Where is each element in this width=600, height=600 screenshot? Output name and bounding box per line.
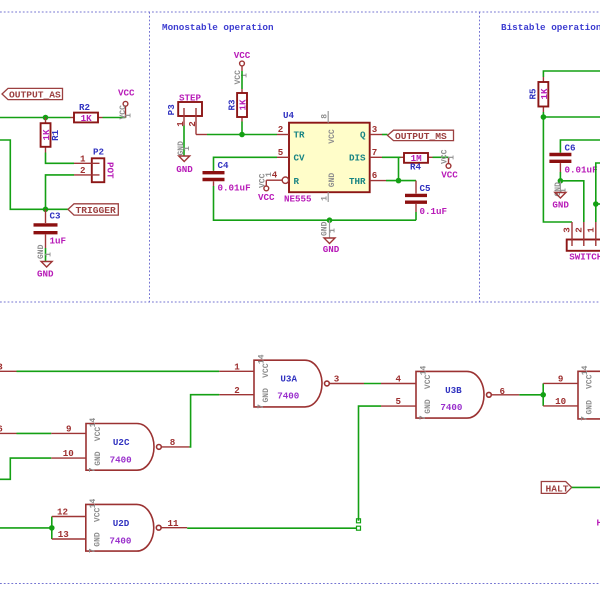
svg-text:10: 10: [555, 396, 566, 407]
svg-text:TRIGGER: TRIGGER: [76, 205, 117, 216]
wire R3 to TR net: [241, 122, 243, 135]
svg-text:C5: C5: [420, 183, 432, 194]
svg-text:7400: 7400: [277, 391, 299, 402]
svg-text:3: 3: [372, 124, 378, 135]
junction THR node: [396, 178, 402, 184]
svg-text:1K: 1K: [81, 113, 93, 124]
svg-text:SWITCH: SWITCH: [569, 252, 600, 263]
svg-text:Bistable operation: Bistable operation: [501, 22, 600, 33]
svg-text:U4: U4: [283, 110, 295, 121]
wire THR to C5: [386, 180, 416, 182]
svg-text:DIS: DIS: [349, 153, 366, 164]
wire HALT to right: [572, 486, 600, 488]
svg-text:2: 2: [573, 227, 584, 233]
svg-text:NE555: NE555: [284, 193, 312, 204]
svg-text:1: 1: [45, 252, 54, 257]
svg-text:14: 14: [257, 354, 266, 364]
svg-text:3: 3: [562, 227, 573, 233]
wire from left to U2C pin10: [0, 458, 51, 479]
resistor R5: [528, 77, 550, 112]
svg-text:GND: GND: [176, 164, 193, 175]
wire R1 to P2 pin1: [46, 153, 75, 164]
svg-text:R4: R4: [410, 162, 422, 173]
svg-text:GND: GND: [37, 269, 54, 280]
svg-text:7400: 7400: [110, 455, 132, 466]
svg-text:7: 7: [580, 416, 589, 421]
power VCC (reset pin): [258, 172, 275, 203]
wire from left (cut gate output) to U3A pin1: [0, 361, 219, 372]
U3B pin 4: [381, 374, 416, 385]
wire U3A out to U3B pin4: [364, 383, 381, 385]
wire C3 to GND: [45, 248, 47, 262]
svg-text:7: 7: [257, 404, 266, 409]
wire C6 top: [560, 140, 600, 153]
power VCC (mono top): [234, 50, 251, 85]
svg-text:U3B: U3B: [445, 385, 462, 396]
svg-text:P2: P2: [93, 147, 104, 158]
svg-text:13: 13: [58, 529, 70, 540]
svg-text:1: 1: [183, 146, 192, 151]
border bottom section: [0, 583, 600, 585]
svg-text:1: 1: [234, 361, 240, 372]
wire DIS to R4: [382, 156, 401, 158]
wire R5 bottom node: [542, 112, 544, 117]
svg-text:1: 1: [80, 153, 86, 164]
wire P2 pin2 down to trigger node: [46, 175, 75, 209]
wire DIS branch down: [398, 157, 400, 180]
resistor R3: [227, 89, 249, 122]
gate U3B 7400: [416, 366, 491, 421]
svg-text:3: 3: [0, 361, 3, 372]
svg-text:8: 8: [170, 437, 176, 448]
wire gnd node to switch pin2: [560, 181, 583, 222]
svg-text:U2C: U2C: [113, 437, 130, 448]
svg-text:2: 2: [278, 124, 284, 135]
U1B pin 10: [543, 396, 578, 407]
svg-text:0.01uF: 0.01uF: [565, 165, 598, 176]
svg-text:GND: GND: [94, 451, 103, 466]
border divider left/mono: [149, 12, 151, 302]
svg-text:VCC: VCC: [94, 508, 103, 523]
wire C4 to gnd rail: [214, 186, 417, 220]
svg-text:Q: Q: [360, 129, 366, 140]
junction gnd rail: [327, 217, 333, 223]
svg-text:OUTPUT_AS: OUTPUT_AS: [9, 90, 61, 101]
junction U1B input node: [540, 392, 546, 398]
power GND (astable): [37, 244, 54, 279]
svg-text:14: 14: [89, 418, 98, 428]
svg-text:1: 1: [328, 228, 337, 233]
U1B pin 9: [543, 374, 578, 385]
svg-text:14: 14: [89, 499, 98, 509]
svg-text:U2D: U2D: [113, 518, 130, 529]
wire from left to U2C pin9: [0, 423, 51, 434]
resistor R2: [71, 102, 103, 124]
U2D pin 13: [52, 529, 86, 540]
svg-text:C3: C3: [50, 210, 62, 221]
svg-text:0.01uF: 0.01uF: [218, 183, 251, 194]
capacitor C5: [405, 181, 447, 217]
svg-text:P3: P3: [166, 104, 177, 116]
gate U1B partial: [578, 365, 600, 421]
svg-text:GND: GND: [323, 244, 340, 255]
wire from left to U2D node: [0, 527, 52, 529]
hierarchical label TRIGGER: [68, 204, 118, 216]
svg-text:8: 8: [321, 114, 330, 119]
power VCC (R4): [441, 149, 459, 180]
svg-text:Monostable operation: Monostable operation: [162, 22, 274, 33]
U2D input node wires: [49, 517, 55, 540]
svg-text:3: 3: [334, 374, 340, 385]
wire Q to label: [382, 134, 388, 136]
svg-text:1K: 1K: [237, 99, 248, 111]
gate U2C 7400: [86, 418, 161, 473]
border divider mono/bistable: [479, 12, 481, 302]
U2C pin 10: [51, 448, 86, 459]
svg-text:VCC: VCC: [262, 363, 271, 378]
svg-text:POT: POT: [105, 162, 116, 179]
U3A pin 2: [219, 385, 254, 396]
svg-text:4: 4: [395, 374, 401, 385]
svg-text:GND: GND: [585, 400, 594, 415]
U3B pin 6 output: [492, 386, 520, 397]
wire R2 to VCC: [103, 117, 126, 119]
wire CV net: [214, 157, 278, 170]
svg-text:VCC: VCC: [424, 375, 433, 390]
junction pin1 net: [593, 201, 599, 207]
svg-text:C4: C4: [218, 160, 230, 171]
svg-text:7: 7: [89, 467, 98, 472]
svg-text:7: 7: [372, 147, 378, 158]
junction gnd node (bistable): [558, 178, 564, 184]
wire U2C out up to U3A pin2: [189, 395, 219, 447]
wire node to TRIGGER label: [46, 208, 69, 210]
svg-text:U3A: U3A: [280, 374, 297, 385]
wire input node split: [542, 383, 544, 406]
hierarchical label HALT: [541, 482, 571, 495]
connector SWITCH: [562, 222, 600, 263]
svg-text:CV: CV: [294, 153, 306, 164]
svg-text:10: 10: [63, 448, 74, 459]
border bottom of top boxes: [0, 301, 600, 303]
svg-text:7400: 7400: [440, 402, 462, 413]
U2C pin 8 output: [162, 437, 190, 448]
svg-text:11: 11: [167, 518, 179, 529]
gate U3A 7400: [254, 354, 329, 409]
connector P3: [166, 93, 202, 135]
junction trigger node: [43, 207, 49, 213]
wire R4 to VCC: [433, 156, 449, 158]
power GND (bistable): [552, 181, 569, 211]
junction TR net: [239, 132, 245, 138]
svg-text:GND: GND: [94, 532, 103, 547]
power VCC (astable): [118, 88, 135, 120]
svg-text:VCC: VCC: [328, 129, 337, 144]
wire P3 pin1 to GND: [183, 126, 185, 157]
resistor R1: [41, 118, 61, 153]
svg-text:9: 9: [558, 374, 564, 385]
svg-text:6: 6: [500, 386, 506, 397]
wire from left edge to trigger node: [0, 140, 46, 209]
U3B pin 5: [381, 396, 416, 407]
svg-text:HALT: HALT: [546, 483, 569, 494]
svg-text:7400: 7400: [109, 535, 131, 546]
svg-text:THR: THR: [349, 176, 366, 187]
svg-text:2: 2: [234, 385, 240, 396]
svg-text:1: 1: [448, 155, 457, 160]
svg-text:VCC: VCC: [441, 169, 458, 180]
svg-text:TR: TR: [294, 129, 306, 140]
wire P3 pin2 to TR: [196, 134, 277, 136]
U2C pin 9: [51, 424, 86, 435]
pin 7 DIS: [370, 147, 382, 158]
hierarchical label OUTPUT_MS: [388, 130, 454, 142]
svg-text:OUTPUT_MS: OUTPUT_MS: [395, 131, 447, 142]
svg-text:GND: GND: [328, 173, 337, 188]
pin 3 Q: [370, 124, 382, 135]
capacitor C4: [203, 160, 251, 194]
pin 8 VCC hidden: [321, 111, 330, 123]
capacitor C6: [549, 143, 597, 176]
svg-text:GND: GND: [424, 399, 433, 414]
wire node down to switch pin3: [543, 117, 572, 222]
pin 1 GND hidden: [321, 192, 330, 202]
svg-text:VCC: VCC: [118, 88, 135, 99]
pin 2 TR: [277, 124, 289, 135]
junction R5 node: [541, 114, 547, 120]
svg-text:0.1uF: 0.1uF: [420, 206, 448, 217]
svg-text:GND: GND: [552, 200, 569, 211]
U3A pin 1: [219, 361, 254, 372]
U2D pin 11 output: [161, 518, 187, 529]
IC U4 NE555: [283, 110, 370, 204]
wire U3B out to U1B inputs: [519, 394, 543, 396]
svg-text:R5: R5: [528, 88, 539, 100]
wire node right: [543, 116, 600, 118]
svg-text:1: 1: [265, 172, 274, 177]
svg-text:R: R: [294, 176, 300, 187]
svg-text:VCC: VCC: [258, 192, 275, 203]
svg-text:R2: R2: [79, 102, 90, 113]
border top dashed: [0, 11, 600, 13]
junction: [43, 115, 49, 121]
connector P2: [74, 147, 116, 183]
svg-text:1: 1: [125, 113, 134, 118]
power GND (mono): [321, 220, 340, 255]
capacitor C3: [34, 209, 67, 248]
U2D pin 12: [52, 507, 86, 518]
svg-text:1uF: 1uF: [50, 235, 67, 246]
pin 4 R inverted: [271, 170, 289, 184]
wire right net to switch pin1: [596, 163, 600, 222]
wire top rail (bistable): [543, 71, 600, 77]
svg-text:2: 2: [80, 165, 86, 176]
svg-text:1: 1: [585, 227, 596, 233]
wire node to R2: [0, 117, 71, 119]
svg-text:1: 1: [321, 196, 330, 201]
svg-text:STEP: STEP: [179, 93, 202, 104]
svg-text:1K: 1K: [539, 88, 550, 100]
svg-text:HA: HA: [597, 518, 600, 529]
svg-text:R1: R1: [50, 129, 61, 141]
wire VCC to R3: [241, 71, 243, 89]
svg-text:VCC: VCC: [585, 374, 594, 389]
pin 5 CV: [277, 147, 289, 158]
svg-text:VCC: VCC: [94, 427, 103, 442]
wire U3B pin5 dangling: [357, 406, 382, 523]
svg-text:14: 14: [419, 366, 428, 376]
svg-text:9: 9: [66, 424, 72, 435]
hierarchical label OUTPUT_AS: [2, 88, 63, 100]
svg-text:GND: GND: [262, 388, 271, 403]
svg-text:R3: R3: [227, 99, 238, 111]
svg-text:14: 14: [581, 365, 590, 375]
wire C6 to gnd node: [559, 172, 561, 181]
power GND (P3): [176, 141, 193, 175]
svg-text:2: 2: [187, 121, 198, 127]
svg-text:VCC: VCC: [234, 50, 251, 61]
svg-text:C6: C6: [565, 143, 576, 154]
svg-text:7: 7: [89, 548, 98, 553]
svg-text:6: 6: [0, 423, 3, 434]
svg-text:12: 12: [57, 507, 68, 518]
svg-text:6: 6: [372, 170, 378, 181]
svg-text:7: 7: [419, 415, 428, 420]
wire pin1 net right: [596, 203, 600, 205]
pin 6 THR: [370, 170, 386, 181]
resistor R4: [401, 153, 433, 173]
gate U2D 7400: [86, 499, 161, 554]
wire C5 to rail: [415, 212, 417, 220]
svg-text:5: 5: [395, 396, 401, 407]
U3A pin 3 output: [330, 374, 364, 385]
wire U2D out dangling: [187, 526, 360, 530]
svg-text:5: 5: [278, 147, 284, 158]
